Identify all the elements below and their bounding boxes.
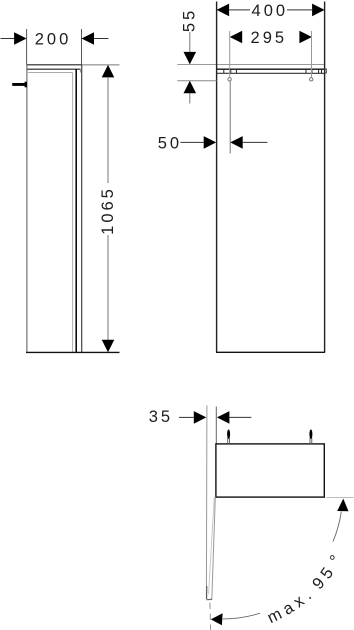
top view: body edge extension bbox=[215, 407, 217, 444]
dimension 400: right arrow bbox=[312, 4, 325, 17]
swing angle: arc upper segment bbox=[333, 512, 341, 542]
dimension 1065: lower line bbox=[107, 235, 109, 340]
svg-text:35: 35 bbox=[149, 408, 173, 426]
side view: rear panel line bbox=[75, 69, 77, 352]
side view: inner top line bbox=[28, 72, 72, 74]
top view: swing plane lower dark part bbox=[206, 586, 208, 599]
top view: open door inner face bbox=[209, 497, 215, 594]
dimension 55: down arrow bbox=[184, 52, 197, 65]
dimension 50: left arrow bbox=[204, 136, 217, 149]
dimension 200: right tail bbox=[94, 38, 108, 40]
dimension 35: right tail bbox=[229, 416, 251, 418]
dimension 50: right tail bbox=[243, 141, 268, 143]
swing angle: label max. 95 deg bbox=[199, 494, 354, 630]
side view: rear outer line bbox=[81, 65, 83, 352]
top view: open door face bbox=[212, 497, 216, 599]
top view: cabinet body bbox=[216, 444, 324, 497]
top view: wall reference line bbox=[326, 497, 353, 499]
dimension 400: left inner line bbox=[229, 9, 250, 11]
front view: carcass top line bbox=[217, 72, 325, 74]
svg-text:55: 55 bbox=[180, 8, 198, 32]
top view: right hinge pin bbox=[309, 429, 312, 443]
dimension 50: extension line bbox=[229, 81, 231, 153]
dimension 200: left extension line bbox=[26, 29, 28, 65]
swing angle: up arrow bbox=[337, 499, 348, 512]
dimension 295: left extension line bbox=[229, 31, 231, 77]
dimension 1065: upper line bbox=[107, 77, 109, 183]
svg-text:400: 400 bbox=[252, 2, 289, 20]
dimension 50: left tail bbox=[180, 141, 203, 143]
side view: handle bbox=[12, 82, 27, 88]
dimension 55: lower line bbox=[189, 93, 191, 103]
front view: bottom line bbox=[216, 351, 325, 353]
top view: left hinge pin bbox=[227, 429, 230, 443]
swing angle: arc lower segment bbox=[223, 613, 260, 619]
top view: dashed tip extension bbox=[209, 603, 212, 630]
dimension 200: left arrow bbox=[14, 32, 27, 45]
dimension 55: upper line bbox=[189, 32, 191, 52]
side view: rear inner line bbox=[72, 73, 74, 353]
swing angle: end arrowhead bbox=[211, 613, 223, 625]
front view: right mounting hole bbox=[310, 78, 313, 81]
dimension 50: right arrow bbox=[230, 136, 243, 149]
front view: right edge + 400 extension bbox=[324, 2, 326, 353]
front view: left edge + 400 extension bbox=[216, 2, 218, 353]
front view: left mounting hole bbox=[228, 78, 231, 81]
front view: top surface line bbox=[177, 64, 324, 66]
dimension 200: left tail bbox=[1, 38, 15, 40]
top view: door tip cap bbox=[207, 598, 213, 600]
front view: right edge step bbox=[325, 69, 327, 73]
svg-text:50: 50 bbox=[158, 134, 182, 152]
svg-text:1065: 1065 bbox=[99, 186, 117, 235]
dimension 295: left arrow bbox=[230, 31, 243, 44]
dimension 400: left arrow bbox=[217, 4, 230, 17]
dimension 400: right inner line bbox=[287, 9, 312, 11]
svg-text:295: 295 bbox=[251, 29, 288, 47]
dimension 200: right arrow bbox=[82, 32, 95, 45]
dimension 1065: bottom arrow bbox=[102, 340, 115, 353]
svg-text:200: 200 bbox=[35, 30, 72, 48]
dimension 295: right extension line bbox=[311, 31, 313, 77]
front view: mounting clips bbox=[224, 70, 322, 73]
dimension 295: right arrow bbox=[299, 31, 312, 44]
side view: left (front) edge bbox=[26, 65, 28, 353]
dimension 35: right arrow bbox=[217, 411, 230, 424]
dimension 35: left tail bbox=[179, 416, 194, 418]
dimension 1065: top arrow bbox=[102, 65, 115, 78]
side view: bottom line bbox=[26, 351, 120, 353]
dimension 200: right extension line bbox=[81, 29, 83, 65]
dimension 35: left arrow bbox=[194, 411, 207, 424]
dimension 55: up arrow bbox=[184, 81, 197, 94]
front view: top panel bottom line bbox=[217, 68, 325, 70]
dimension 1065: top extension line bbox=[82, 64, 120, 66]
top view: open door swing plane bbox=[205, 406, 208, 600]
dimension 55: lower reference line bbox=[177, 80, 216, 82]
side view: top panel bbox=[27, 65, 83, 73]
